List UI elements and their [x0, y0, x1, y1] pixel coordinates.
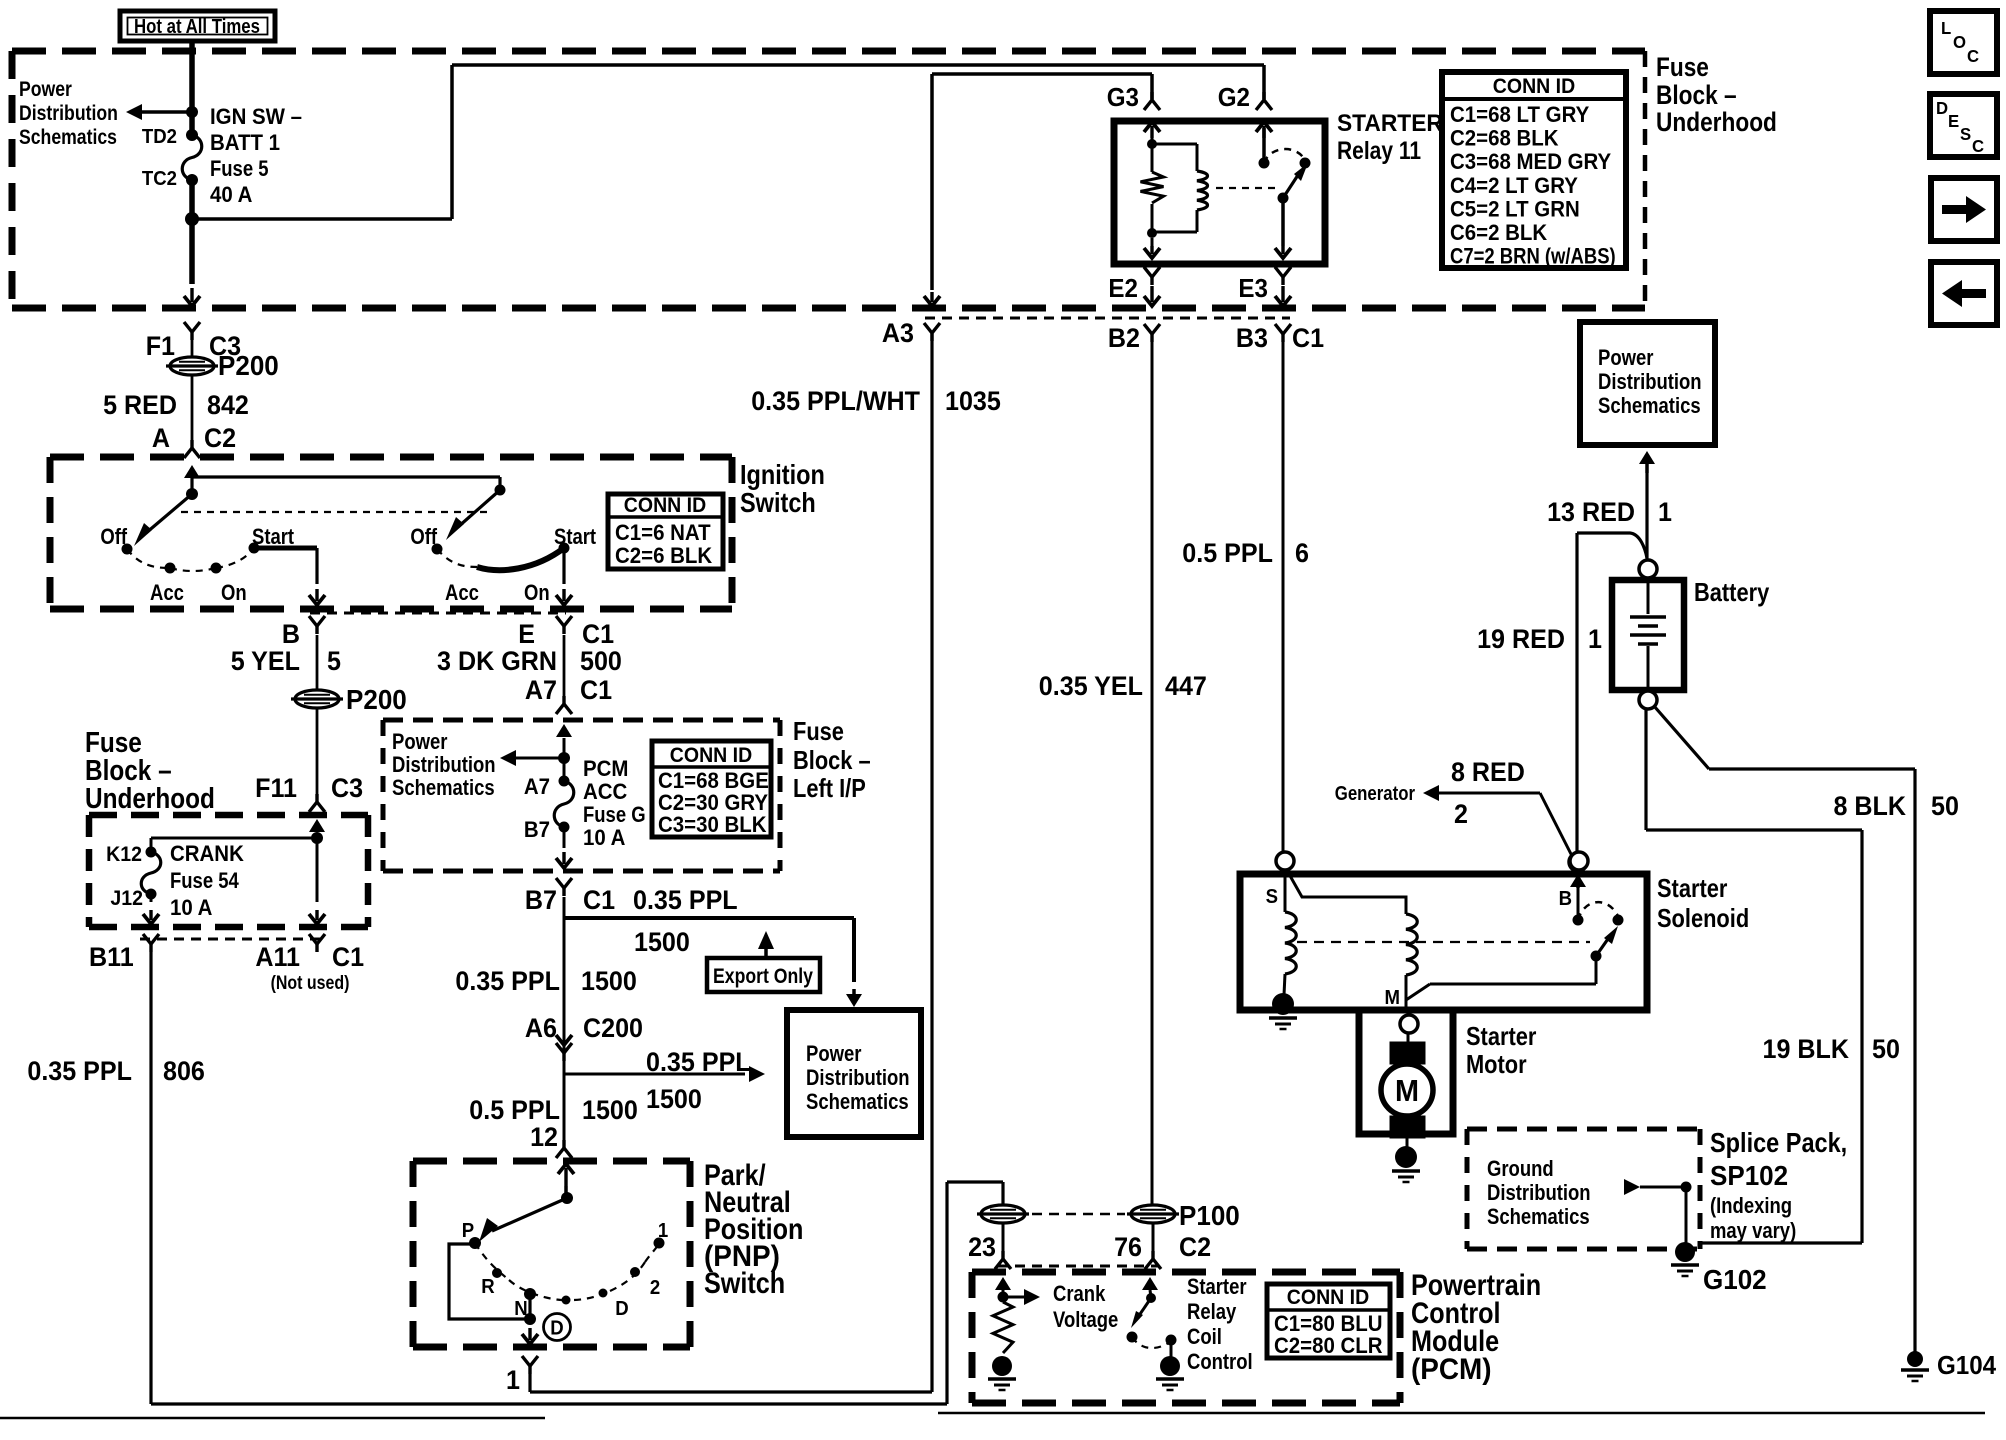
svg-text:(PCM): (PCM)	[1411, 1353, 1492, 1386]
svg-text:C1=6 NAT: C1=6 NAT	[615, 520, 711, 545]
svg-text:Hot at All Times: Hot at All Times	[134, 15, 260, 38]
svg-text:13 RED: 13 RED	[1547, 496, 1635, 527]
svg-text:(Not used): (Not used)	[271, 972, 350, 994]
svg-text:C: C	[1972, 135, 1985, 156]
svg-text:1500: 1500	[646, 1083, 702, 1114]
svg-text:C1: C1	[332, 941, 364, 972]
svg-text:19 RED: 19 RED	[1477, 623, 1565, 654]
svg-text:Block –: Block –	[793, 746, 871, 775]
svg-text:O: O	[1953, 31, 1966, 52]
svg-text:L: L	[1941, 17, 1952, 38]
svg-text:Motor: Motor	[1466, 1050, 1527, 1079]
svg-text:C1: C1	[580, 674, 612, 705]
svg-text:Crank: Crank	[1053, 1283, 1106, 1307]
svg-text:Block –: Block –	[1656, 80, 1737, 110]
svg-text:CRANK: CRANK	[170, 841, 244, 866]
svg-text:Starter: Starter	[1466, 1022, 1536, 1051]
svg-text:Relay: Relay	[1187, 1301, 1237, 1325]
svg-text:C2=6 BLK: C2=6 BLK	[615, 543, 713, 568]
svg-text:Export Only: Export Only	[713, 965, 813, 989]
svg-text:Ignition: Ignition	[740, 460, 825, 490]
svg-text:K12: K12	[106, 843, 142, 866]
svg-text:0.35 PPL: 0.35 PPL	[455, 965, 560, 996]
svg-text:G3: G3	[1107, 83, 1139, 112]
svg-text:8 RED: 8 RED	[1451, 756, 1525, 787]
svg-text:12: 12	[530, 1121, 558, 1152]
svg-text:3 DK GRN: 3 DK GRN	[437, 645, 557, 676]
svg-text:1: 1	[1588, 623, 1602, 654]
svg-text:C3=68 MED GRY: C3=68 MED GRY	[1450, 150, 1611, 175]
svg-text:Ground: Ground	[1487, 1158, 1554, 1182]
svg-text:Splice Pack,: Splice Pack,	[1710, 1128, 1847, 1158]
svg-text:0.5 PPL: 0.5 PPL	[1182, 537, 1273, 568]
svg-text:ACC: ACC	[583, 779, 627, 804]
svg-text:10 A: 10 A	[170, 895, 212, 920]
svg-text:CONN ID: CONN ID	[624, 494, 706, 517]
svg-text:IGN SW –: IGN SW –	[210, 104, 302, 129]
svg-text:G102: G102	[1703, 1264, 1767, 1295]
svg-text:C3: C3	[331, 772, 363, 803]
svg-text:B7: B7	[524, 817, 550, 842]
svg-text:C2=68 BLK: C2=68 BLK	[1450, 126, 1559, 151]
svg-text:1: 1	[506, 1364, 520, 1395]
svg-text:Power: Power	[392, 731, 447, 755]
svg-text:Fuse 54: Fuse 54	[170, 870, 239, 894]
svg-text:P: P	[462, 1220, 475, 1242]
svg-text:Acc: Acc	[445, 582, 479, 606]
svg-text:TC2: TC2	[142, 168, 177, 190]
svg-text:N: N	[514, 1298, 527, 1320]
svg-text:Power: Power	[1598, 347, 1653, 371]
svg-text:E: E	[1948, 110, 1959, 131]
svg-text:Power: Power	[19, 78, 72, 102]
svg-text:C1: C1	[1292, 322, 1324, 353]
svg-text:Switch: Switch	[740, 488, 816, 518]
svg-text:Distribution: Distribution	[1598, 371, 1702, 395]
svg-text:Fuse G: Fuse G	[583, 804, 646, 828]
svg-text:PCM: PCM	[583, 756, 628, 781]
svg-text:CONN ID: CONN ID	[670, 744, 752, 767]
svg-text:C3=30 BLK: C3=30 BLK	[658, 812, 767, 837]
svg-text:23: 23	[968, 1231, 996, 1262]
svg-text:D: D	[1936, 97, 1948, 118]
svg-text:2: 2	[650, 1277, 660, 1299]
svg-text:B: B	[1559, 888, 1572, 910]
svg-text:806: 806	[163, 1055, 205, 1086]
svg-text:Fuse: Fuse	[793, 717, 844, 746]
svg-text:SP102: SP102	[1710, 1160, 1788, 1191]
svg-text:1: 1	[1658, 496, 1672, 527]
svg-text:Fuse: Fuse	[1656, 52, 1709, 82]
svg-text:Control: Control	[1187, 1351, 1253, 1375]
svg-text:Power: Power	[806, 1043, 861, 1067]
svg-text:C2: C2	[204, 422, 236, 453]
svg-text:A11: A11	[255, 941, 300, 972]
svg-text:842: 842	[207, 389, 249, 420]
svg-text:Starter: Starter	[1187, 1276, 1247, 1300]
svg-text:Left I/P: Left I/P	[793, 774, 866, 803]
svg-text:TD2: TD2	[142, 126, 177, 148]
svg-text:500: 500	[580, 645, 622, 676]
svg-text:1500: 1500	[582, 1094, 638, 1125]
svg-text:Schematics: Schematics	[392, 777, 495, 801]
svg-text:E3: E3	[1238, 274, 1268, 303]
svg-text:Coil: Coil	[1187, 1326, 1222, 1350]
svg-text:A7: A7	[525, 674, 557, 705]
svg-text:0.35 PPL/WHT: 0.35 PPL/WHT	[751, 385, 920, 416]
svg-text:Voltage: Voltage	[1053, 1309, 1118, 1333]
svg-text:1500: 1500	[581, 965, 637, 996]
svg-text:Schematics: Schematics	[19, 126, 117, 150]
svg-text:Underhood: Underhood	[1656, 107, 1777, 137]
svg-text:0.35 PPL: 0.35 PPL	[646, 1046, 751, 1077]
svg-text:On: On	[524, 582, 550, 606]
svg-text:Distribution: Distribution	[1487, 1182, 1591, 1206]
svg-text:5 RED: 5 RED	[103, 389, 177, 420]
svg-text:Schematics: Schematics	[806, 1091, 909, 1115]
svg-text:CONN ID: CONN ID	[1493, 75, 1575, 98]
svg-text:40 A: 40 A	[210, 182, 252, 207]
svg-text:Schematics: Schematics	[1598, 395, 1701, 419]
svg-text:A6: A6	[525, 1012, 557, 1043]
svg-text:0.35 PPL: 0.35 PPL	[633, 884, 738, 915]
svg-text:Acc: Acc	[150, 582, 184, 606]
svg-text:C6=2 BLK: C6=2 BLK	[1450, 220, 1548, 245]
svg-text:0.35 YEL: 0.35 YEL	[1039, 670, 1143, 701]
svg-text:F11: F11	[255, 772, 297, 803]
svg-text:Distribution: Distribution	[19, 102, 118, 126]
svg-text:5: 5	[327, 645, 341, 676]
svg-text:19 BLK: 19 BLK	[1763, 1033, 1850, 1064]
svg-text:BATT 1: BATT 1	[210, 130, 280, 155]
svg-text:P200: P200	[218, 350, 279, 381]
svg-text:Off: Off	[410, 526, 437, 550]
svg-text:A: A	[152, 422, 170, 453]
svg-text:may vary): may vary)	[1710, 1220, 1796, 1244]
svg-text:E2: E2	[1108, 274, 1138, 303]
svg-text:0.35 PPL: 0.35 PPL	[27, 1055, 132, 1086]
svg-text:C5=2 LT GRN: C5=2 LT GRN	[1450, 197, 1580, 222]
svg-text:1: 1	[658, 1220, 669, 1242]
svg-text:C200: C200	[583, 1012, 643, 1043]
svg-text:1035: 1035	[945, 385, 1001, 416]
svg-text:C4=2 LT GRY: C4=2 LT GRY	[1450, 173, 1578, 198]
svg-text:8 BLK: 8 BLK	[1833, 790, 1906, 821]
svg-text:S: S	[1960, 123, 1971, 144]
svg-text:Relay 11: Relay 11	[1337, 136, 1421, 164]
svg-text:50: 50	[1872, 1033, 1900, 1064]
svg-text:B7: B7	[525, 884, 557, 915]
svg-text:D: D	[550, 1318, 563, 1340]
svg-text:Switch: Switch	[704, 1266, 785, 1300]
svg-text:10 A: 10 A	[583, 825, 625, 850]
svg-text:(Indexing: (Indexing	[1710, 1195, 1792, 1219]
svg-text:B11: B11	[89, 941, 134, 972]
svg-text:STARTER: STARTER	[1337, 110, 1443, 137]
svg-text:Solenoid: Solenoid	[1657, 904, 1749, 933]
svg-text:D: D	[615, 1298, 628, 1320]
svg-text:G2: G2	[1218, 83, 1250, 112]
svg-text:Distribution: Distribution	[392, 754, 496, 778]
svg-text:CONN ID: CONN ID	[1287, 1286, 1369, 1309]
svg-text:Fuse 5: Fuse 5	[210, 158, 268, 182]
svg-text:50: 50	[1931, 790, 1959, 821]
svg-text:Underhood: Underhood	[85, 782, 215, 814]
svg-text:C2=80 CLR: C2=80 CLR	[1274, 1333, 1383, 1358]
svg-text:1500: 1500	[634, 926, 690, 957]
svg-text:C2: C2	[1179, 1231, 1211, 1262]
svg-text:C1: C1	[583, 884, 615, 915]
svg-text:On: On	[221, 582, 247, 606]
svg-text:S: S	[1266, 886, 1279, 908]
svg-text:F1: F1	[146, 330, 175, 361]
svg-text:2: 2	[1454, 798, 1468, 829]
svg-text:Distribution: Distribution	[806, 1067, 910, 1091]
svg-text:Battery: Battery	[1694, 578, 1770, 607]
svg-text:M: M	[1395, 1074, 1419, 1108]
svg-text:Generator: Generator	[1335, 782, 1415, 805]
svg-text:B3: B3	[1236, 322, 1268, 353]
svg-text:A7: A7	[524, 774, 550, 799]
svg-text:P200: P200	[346, 684, 407, 715]
svg-text:447: 447	[1165, 670, 1207, 701]
svg-text:Off: Off	[100, 526, 127, 550]
svg-text:C1=68 LT GRY: C1=68 LT GRY	[1450, 102, 1589, 127]
svg-text:A3: A3	[882, 317, 914, 348]
svg-text:76: 76	[1114, 1231, 1142, 1262]
svg-text:6: 6	[1295, 537, 1309, 568]
svg-text:B2: B2	[1108, 322, 1140, 353]
svg-text:J12: J12	[110, 887, 143, 910]
svg-text:5 YEL: 5 YEL	[231, 645, 300, 676]
svg-text:C7=2 BRN (w/ABS): C7=2 BRN (w/ABS)	[1450, 245, 1616, 269]
svg-text:Starter: Starter	[1657, 874, 1727, 903]
svg-text:C: C	[1967, 45, 1980, 66]
svg-text:M: M	[1385, 987, 1400, 1009]
svg-text:R: R	[481, 1276, 494, 1298]
svg-text:Start: Start	[554, 526, 596, 550]
svg-text:G104: G104	[1937, 1351, 1996, 1380]
svg-text:Schematics: Schematics	[1487, 1206, 1590, 1230]
svg-text:P100: P100	[1179, 1200, 1240, 1231]
